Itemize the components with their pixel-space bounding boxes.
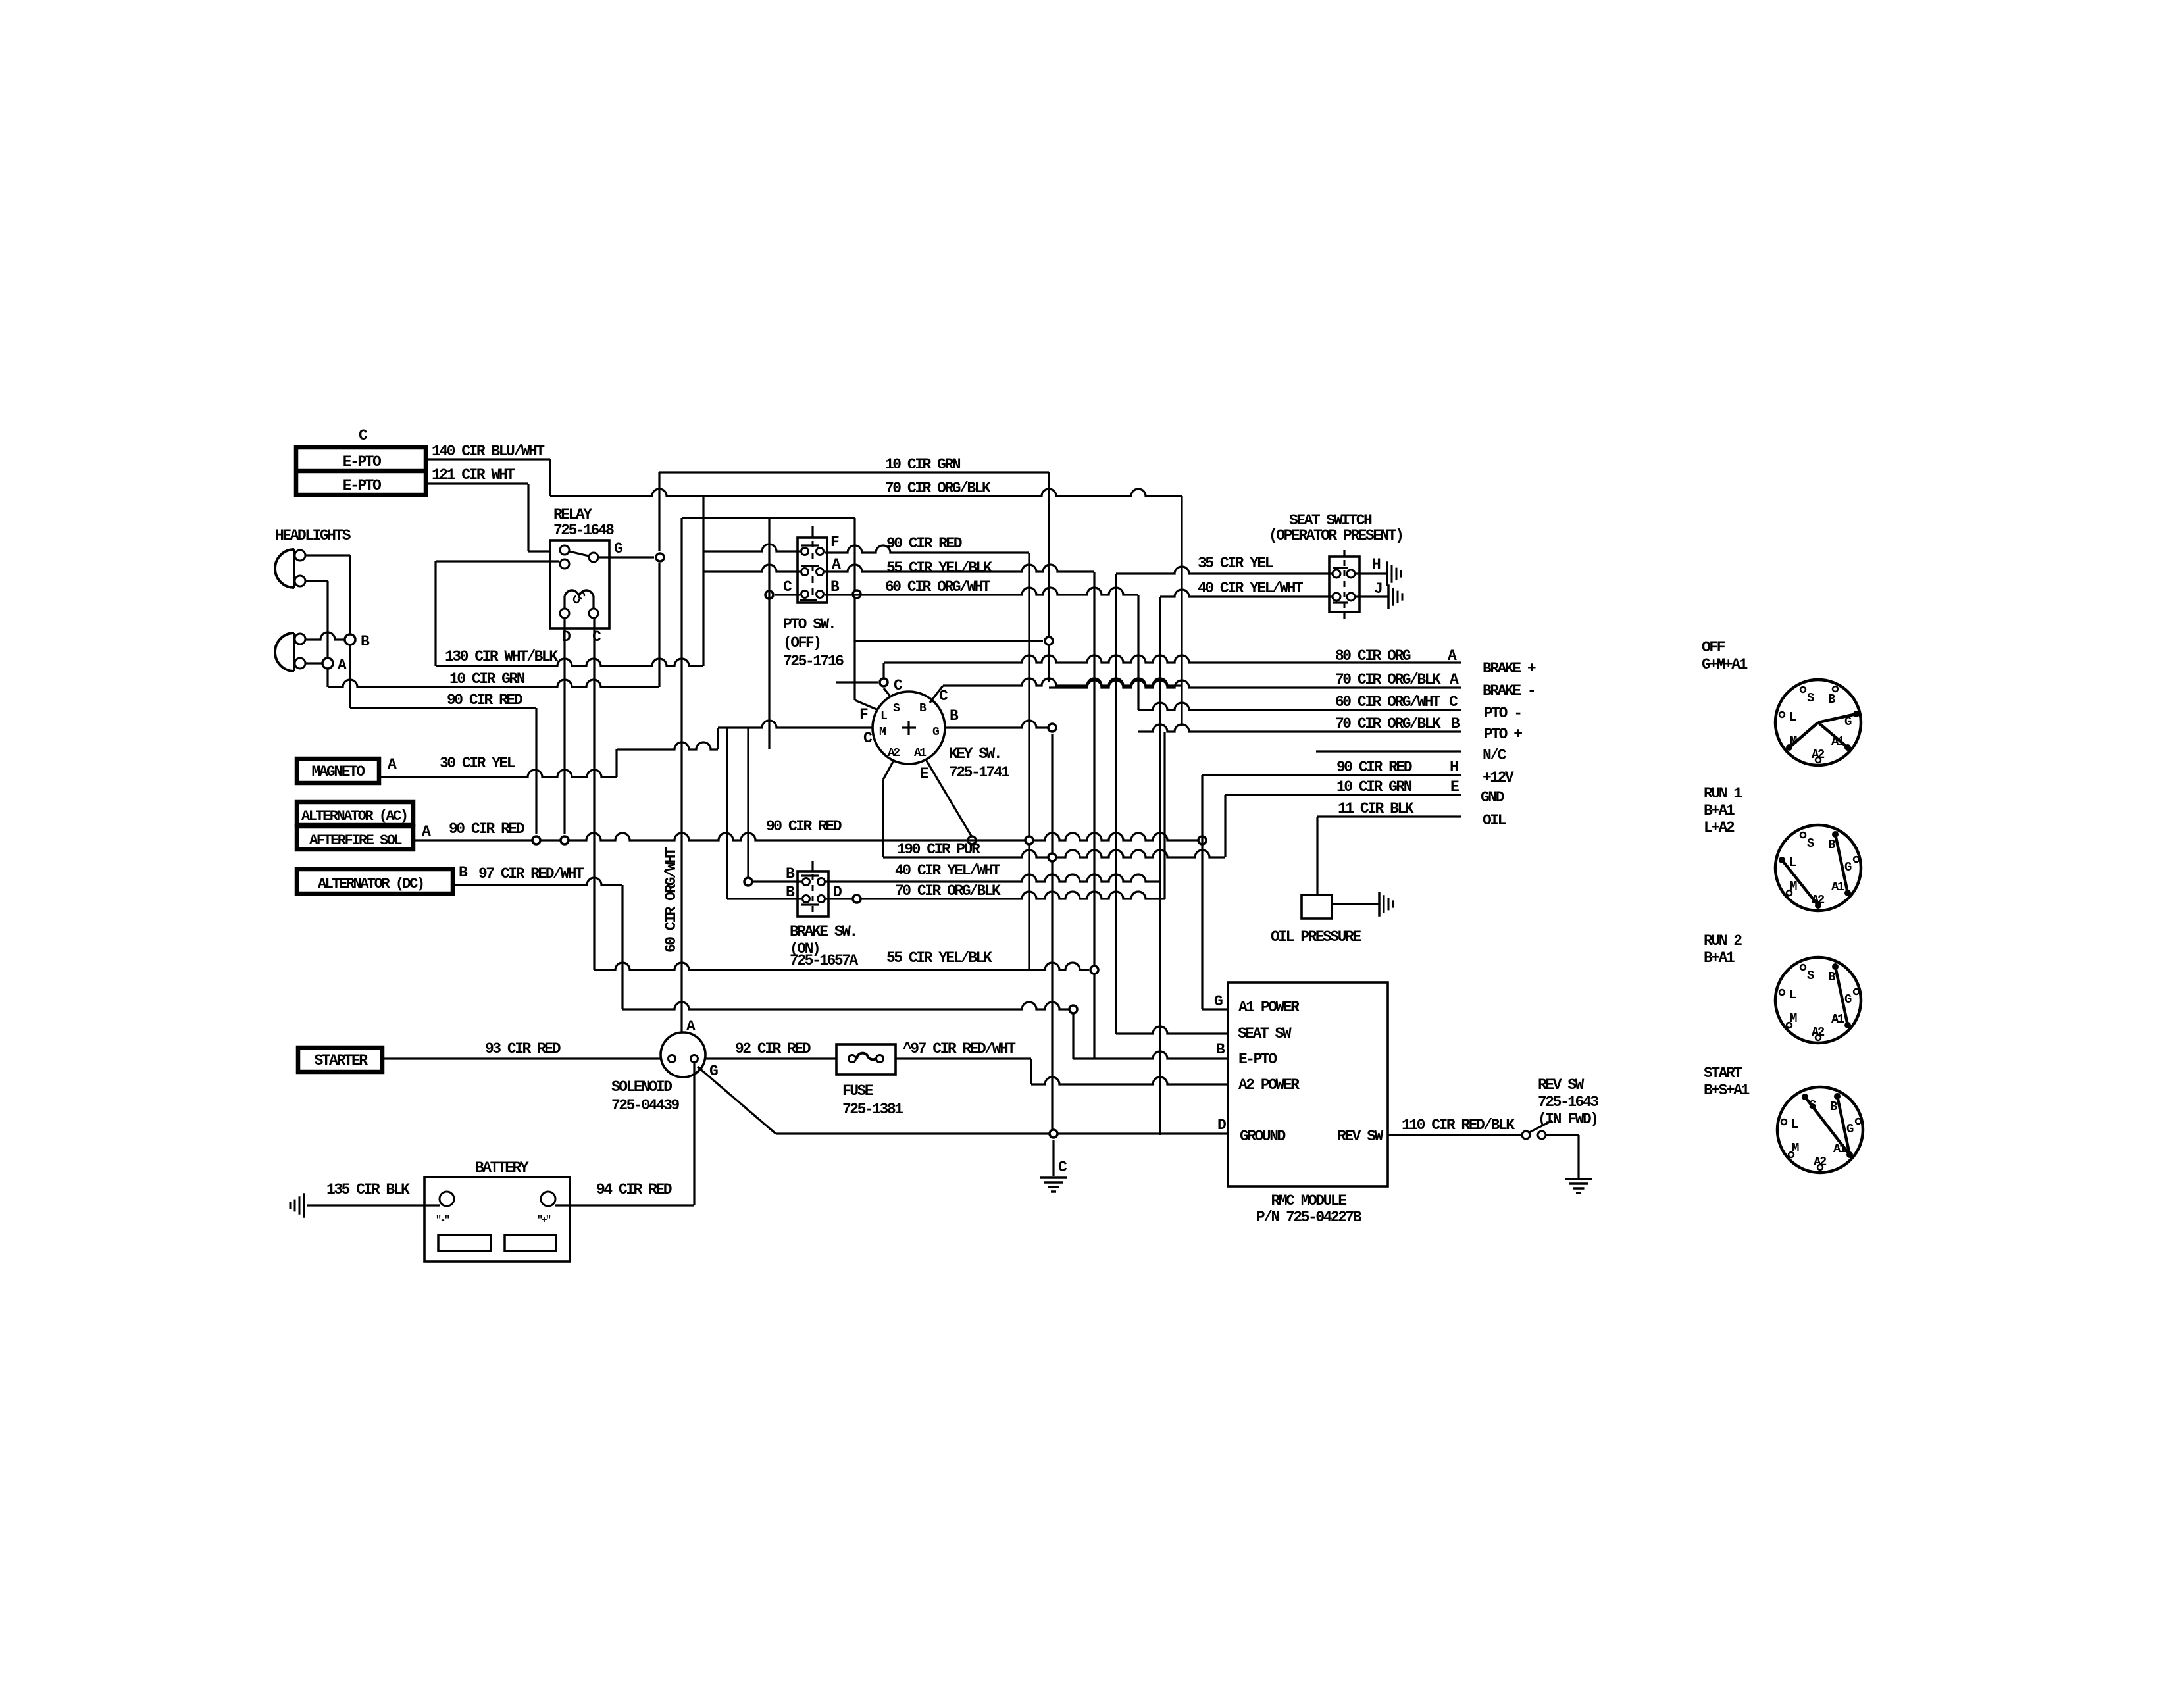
battery box	[424, 1177, 570, 1261]
wire oil pressure to ground	[1332, 903, 1379, 905]
relay coil pins	[560, 609, 598, 618]
wire 110 CIR RED/BLK	[1388, 1134, 1522, 1136]
svg-text:725-1648: 725-1648	[553, 522, 614, 539]
svg-text:A1: A1	[1833, 1142, 1846, 1156]
wire 40 CIR YEL/WHT label brake	[895, 862, 1001, 879]
svg-text:N/C: N/C	[1483, 747, 1507, 764]
RMC pin G	[1202, 775, 1228, 1010]
wire 30 CIR YEL	[379, 728, 718, 777]
wire 70 CIR ORG/BLK label top	[885, 480, 991, 497]
wire 90 CIR RED label PTOrow	[886, 535, 962, 552]
key terminal M	[879, 726, 886, 739]
svg-text:190 CIR PUR: 190 CIR PUR	[897, 841, 980, 858]
junction 190 PUR	[1048, 853, 1056, 861]
BRAKE SW. (ON) 725-1657A label	[790, 923, 858, 969]
svg-text:SEAT SW: SEAT SW	[1238, 1025, 1292, 1042]
svg-text:135 CIR BLK: 135 CIR BLK	[326, 1181, 410, 1198]
wire PTO C junction	[765, 518, 800, 749]
battery cell boxes	[438, 1235, 556, 1251]
wire 97 CIR RED/WHT fuse to RMC	[896, 1057, 1031, 1059]
svg-text:121 CIR WHT: 121 CIR WHT	[432, 467, 515, 484]
svg-text:OFF: OFF	[1702, 639, 1725, 656]
svg-text:REV SW: REV SW	[1538, 1076, 1585, 1094]
svg-text:PTO -: PTO -	[1484, 705, 1521, 722]
STARTER box	[298, 1048, 382, 1072]
HEADLIGHTS label	[275, 527, 351, 544]
brake switch plunger	[812, 874, 814, 913]
wire GROUND row	[776, 1132, 1228, 1134]
svg-text:60 CIR ORG/WHT: 60 CIR ORG/WHT	[885, 578, 991, 595]
svg-text:A1: A1	[1831, 734, 1844, 749]
PTO pins F row	[801, 545, 824, 555]
svg-text:BRAKE SW.: BRAKE SW.	[790, 923, 857, 940]
node A	[322, 657, 347, 674]
key position START label	[1704, 1065, 1750, 1099]
svg-text:A2: A2	[1812, 747, 1825, 762]
svg-text:55 CIR YEL/BLK: 55 CIR YEL/BLK	[886, 949, 992, 967]
battery minus mark	[436, 1215, 449, 1226]
PTO SW. (OFF) 725-1716 label	[783, 616, 844, 670]
key terminal L	[880, 710, 887, 723]
BRAKE + label	[1483, 660, 1536, 677]
svg-text:10 CIR GRN: 10 CIR GRN	[1336, 778, 1412, 796]
relay 725-1648 label	[553, 506, 614, 539]
wire solenoid to battery	[693, 1063, 695, 1205]
svg-text:60 CIR ORG/WHT: 60 CIR ORG/WHT	[1335, 694, 1441, 711]
junction 97 row	[1069, 1005, 1077, 1059]
svg-text:90 CIR RED: 90 CIR RED	[766, 818, 842, 835]
svg-text:F: F	[859, 706, 868, 723]
wire 135 CIR BLK	[307, 1204, 440, 1206]
junction 55 YEL/BLK	[1073, 966, 1228, 1059]
wire brake B2 left	[727, 728, 801, 899]
svg-text:725-1381: 725-1381	[842, 1101, 903, 1118]
solenoid pins	[669, 1055, 698, 1063]
svg-text:OIL PRESSURE: OIL PRESSURE	[1271, 928, 1361, 946]
svg-text:E: E	[920, 765, 928, 782]
fuse element	[849, 1053, 884, 1063]
wire 40 CIR YEL/WHT label seat	[1198, 580, 1304, 597]
wire 140 CIR BLU/WHT	[426, 459, 550, 496]
RMC E-PTO label	[1238, 1051, 1277, 1068]
svg-text:A2: A2	[888, 747, 900, 760]
key A2 stub	[883, 761, 894, 857]
svg-text:70 CIR ORG/BLK: 70 CIR ORG/BLK	[1335, 671, 1441, 688]
seat pins H row	[1333, 568, 1355, 578]
wire seat sw feed	[1116, 1026, 1228, 1034]
svg-text:93 CIR RED: 93 CIR RED	[485, 1040, 561, 1057]
svg-text:40 CIR YEL/WHT: 40 CIR YEL/WHT	[1198, 580, 1304, 597]
svg-text:L+A2: L+A2	[1704, 819, 1735, 836]
svg-text:G: G	[614, 540, 622, 557]
svg-text:D: D	[1217, 1117, 1226, 1134]
wire row to dot	[855, 637, 1053, 682]
key G wire	[945, 707, 1052, 728]
svg-text:11 CIR BLK: 11 CIR BLK	[1338, 800, 1414, 817]
wire 92 CIR RED	[705, 1057, 836, 1059]
PTO terminal B label	[830, 578, 840, 595]
svg-text:(OFF): (OFF)	[783, 634, 821, 651]
wire 35 CIR YEL label	[1198, 555, 1273, 572]
brake terminal D label	[833, 884, 842, 901]
svg-text:A2 POWER: A2 POWER	[1238, 1076, 1300, 1094]
wire 70 CIR ORG/BLK top	[550, 489, 1182, 726]
svg-text:725-1741: 725-1741	[949, 764, 1009, 781]
junction 90 RED c	[1025, 836, 1033, 844]
GND label	[1481, 789, 1504, 806]
svg-text:140 CIR BLU/WHT: 140 CIR BLU/WHT	[432, 443, 545, 460]
svg-text:A1: A1	[914, 747, 927, 760]
svg-text:RELAY: RELAY	[553, 506, 592, 523]
SEAT SWITCH label	[1269, 512, 1402, 544]
key position RUN 1 label	[1704, 785, 1742, 836]
wire 90 CIR RED H label	[1336, 759, 1458, 776]
wire 10 CIR GRN left	[328, 563, 659, 687]
svg-text:(OPERATOR PRESENT): (OPERATOR PRESENT)	[1269, 527, 1402, 544]
PTO - label	[1484, 705, 1521, 722]
svg-text:B+A1: B+A1	[1704, 802, 1735, 819]
wire headlight1 top to node B	[305, 555, 350, 634]
headlight lamp 2	[275, 633, 305, 671]
wire N/C	[1316, 747, 1507, 764]
svg-text:90 CIR RED: 90 CIR RED	[886, 535, 962, 552]
wire 97 row to RMC	[622, 1002, 1073, 1009]
wire 60 CIR ORG/WHT feeder	[682, 496, 855, 1032]
RMC A1 POWER label	[1238, 999, 1300, 1016]
svg-text:10 CIR GRN: 10 CIR GRN	[449, 670, 525, 688]
key G junction	[1048, 724, 1056, 1135]
svg-text:BRAKE -: BRAKE -	[1483, 682, 1535, 699]
wire 60 CIR ORG/WHT label PTOrow	[885, 578, 991, 595]
wire 130 CIR WHT/BLK	[436, 659, 703, 666]
svg-text:ALTERNATOR (AC): ALTERNATOR (AC)	[301, 808, 407, 824]
key switch center cross	[902, 721, 916, 735]
key position OFF diagram	[1775, 680, 1861, 765]
svg-text:H: H	[1450, 759, 1458, 776]
ground symbol oil pressure	[1379, 892, 1393, 917]
RMC GROUND label	[1240, 1128, 1286, 1145]
svg-text:D: D	[562, 628, 571, 645]
wire 11 CIR BLK	[1317, 817, 1461, 895]
junction 90 RED d	[1198, 836, 1206, 844]
key C stub top-left	[880, 677, 903, 696]
wire 121 CIR WHT	[426, 484, 550, 551]
RMC REV SW label	[1337, 1128, 1384, 1145]
ground symbol C	[1040, 1178, 1067, 1192]
node C label	[359, 427, 368, 444]
BATTERY label	[475, 1159, 529, 1176]
svg-text:STARTER: STARTER	[314, 1052, 368, 1069]
brake terminal B2 label	[786, 884, 795, 901]
relay G terminal label	[614, 540, 622, 557]
svg-text:KEY SW.: KEY SW.	[949, 746, 1001, 763]
wire 40 CIR YEL/WHT seat	[1160, 590, 1332, 1135]
svg-text:REV SW: REV SW	[1337, 1128, 1384, 1145]
svg-text:B+S+A1: B+S+A1	[1704, 1082, 1750, 1099]
brake switch box	[798, 861, 828, 917]
wire 35 CIR YEL right	[1116, 567, 1332, 1034]
key terminal A2 inner	[888, 747, 900, 760]
node B	[345, 633, 370, 650]
wire 110 CIR RED/BLK label	[1402, 1117, 1515, 1134]
PTO + label	[1484, 726, 1522, 743]
svg-text:E-PTO: E-PTO	[343, 477, 381, 494]
svg-text:SOLENOID: SOLENOID	[611, 1078, 672, 1096]
svg-text:55 CIR YEL/BLK: 55 CIR YEL/BLK	[886, 559, 992, 576]
svg-text:A2: A2	[1814, 1155, 1827, 1169]
wire A2 POWER feed	[1031, 1059, 1228, 1084]
wire 60 CIR ORG/WHT C label	[1335, 694, 1458, 711]
wire 97 CIR RED/WHT label	[478, 865, 584, 882]
key position RUN 2 diagram	[1775, 957, 1861, 1043]
svg-text:MAGNETO: MAGNETO	[311, 763, 365, 780]
REV SW 725-1643 label	[1538, 1076, 1598, 1128]
wire 90 CIR RED H	[1202, 774, 1461, 776]
svg-text:70 CIR ORG/BLK: 70 CIR ORG/BLK	[885, 480, 991, 497]
wire 70 CIR ORG/BLK B	[1138, 724, 1461, 732]
wire 55 CIR YEL/BLK	[594, 963, 1089, 970]
key C row left	[836, 681, 878, 683]
solenoid A label	[686, 1018, 696, 1035]
wire node B to 90 CIR RED	[349, 645, 351, 708]
brake terminal B1 label	[786, 865, 795, 882]
svg-text:130 CIR WHT/BLK: 130 CIR WHT/BLK	[445, 648, 558, 665]
wire 97 CIR RED/WHT	[453, 878, 622, 1009]
FUSE 725-1381 label	[842, 1082, 903, 1118]
wire PTO F feed	[703, 544, 800, 551]
svg-text:G+M+A1: G+M+A1	[1702, 656, 1748, 673]
KEY SW. 725-1741 label	[949, 746, 1009, 781]
AFTERFIRE SOL box	[297, 823, 431, 849]
svg-text:RUN 1: RUN 1	[1704, 785, 1742, 802]
wire 93 CIR RED	[382, 1057, 662, 1059]
PTO pins A row	[801, 566, 824, 576]
svg-text:H: H	[1372, 556, 1381, 573]
seat J wire	[1355, 580, 1402, 609]
wire 10 CIR GRN label left	[449, 670, 525, 688]
wire 90 CIR RED main	[413, 833, 1202, 840]
MAGNETO box	[297, 756, 397, 783]
RMC MODULE P/N label	[1256, 1192, 1362, 1226]
svg-text:AFTERFIRE SOL: AFTERFIRE SOL	[309, 832, 402, 849]
wire 70 CIR ORG/BLK A label	[1335, 671, 1459, 688]
relay G junction	[656, 553, 664, 561]
svg-text:^97 CIR RED/WHT: ^97 CIR RED/WHT	[903, 1040, 1016, 1057]
wire 55 CIR YEL/BLK label top	[886, 559, 992, 576]
junction ground C	[1050, 1130, 1067, 1176]
svg-text:725-1716: 725-1716	[783, 653, 844, 670]
seat switch box	[1329, 550, 1359, 619]
wire 30 CIR YEL label	[440, 755, 515, 772]
RMC pin D	[1217, 1117, 1226, 1134]
wire 55 CIR YEL/BLK label	[886, 949, 992, 967]
svg-text:110 CIR RED/BLK: 110 CIR RED/BLK	[1402, 1117, 1515, 1134]
wire 70 CIR ORG/BLK B label	[1335, 715, 1460, 732]
svg-text:70 CIR ORG/BLK: 70 CIR ORG/BLK	[1335, 715, 1441, 732]
wire node A to 10 CIR GRN	[326, 669, 328, 687]
svg-text:ALTERNATOR (DC): ALTERNATOR (DC)	[318, 876, 424, 892]
relay contact3 wire to 130	[436, 561, 559, 666]
wire PTO A feed	[703, 565, 800, 572]
svg-text:E-PTO: E-PTO	[343, 453, 381, 470]
wire 40 CIR YEL/WHT brake	[753, 874, 1160, 882]
junction 40 YEL/WHT	[744, 728, 752, 886]
wire 60 CIR ORG/WHT PTO B right	[825, 588, 1138, 710]
svg-text:90 CIR RED: 90 CIR RED	[447, 692, 522, 709]
svg-text:GROUND: GROUND	[1240, 1128, 1286, 1145]
wire 90 CIR RED key label	[766, 818, 842, 835]
key C stub top-right	[930, 686, 948, 705]
vertical 60 CIR ORG/WHT label	[663, 847, 680, 953]
seat H wire	[1355, 556, 1401, 586]
svg-text:725-04439: 725-04439	[611, 1097, 679, 1114]
svg-text:RMC MODULE: RMC MODULE	[1271, 1192, 1346, 1209]
headlight lamp 1	[275, 549, 305, 588]
+12V label	[1483, 769, 1514, 786]
PTO terminal C label	[783, 578, 792, 595]
key terminal B inner	[919, 702, 927, 715]
seat switch plunger	[1344, 560, 1346, 609]
relay coil	[565, 590, 594, 609]
wire 90 CIR RED PTO F right	[825, 545, 1029, 970]
wire headlight2 bottom	[305, 662, 322, 664]
svg-text:725-1657A: 725-1657A	[790, 952, 858, 969]
key terminal S	[893, 702, 900, 715]
BRAKE - label	[1483, 682, 1535, 699]
svg-text:94 CIR RED: 94 CIR RED	[596, 1181, 672, 1198]
brake pins bottom row	[801, 896, 825, 905]
svg-text:FUSE: FUSE	[842, 1082, 873, 1100]
svg-text:PTO +: PTO +	[1484, 726, 1522, 743]
PTO switch box	[798, 526, 827, 603]
wire 70 CIR ORG/BLK brake	[825, 732, 1165, 899]
solenoid circle	[661, 1032, 705, 1077]
PTO terminal A label	[832, 556, 841, 573]
svg-text:RUN 2: RUN 2	[1704, 932, 1742, 949]
key position RUN 2 label	[1704, 932, 1742, 967]
svg-text:B+A1: B+A1	[1704, 949, 1735, 967]
svg-text:PTO SW.: PTO SW.	[783, 616, 835, 633]
key switch circle	[873, 692, 945, 764]
battery terminals	[440, 1192, 555, 1206]
wire solenoid G diagonal	[698, 1067, 776, 1134]
wire headlight2 top	[305, 632, 344, 640]
wire 10 CIR GRN top	[659, 472, 1049, 681]
svg-text:90 CIR RED: 90 CIR RED	[449, 821, 524, 838]
RMC module box	[1228, 982, 1388, 1186]
wire 60 CIR ORG/WHT C	[1138, 703, 1461, 710]
svg-text:BATTERY: BATTERY	[475, 1159, 529, 1176]
svg-text:E: E	[1450, 778, 1459, 796]
svg-text:GND: GND	[1481, 789, 1504, 806]
key position START diagram	[1777, 1087, 1863, 1173]
wire 140 CIR BLU/WHT label	[432, 443, 545, 460]
key terminal G	[932, 726, 939, 739]
ground symbol rev switch	[1565, 1179, 1592, 1193]
key E diagonal	[920, 761, 972, 837]
relay G wire	[599, 556, 654, 558]
wire 80 CIR ORG	[884, 655, 1461, 678]
wire 90 CIR RED label mid	[447, 692, 522, 709]
ALTERNATOR (DC) box	[297, 864, 468, 894]
junction 90 RED b	[561, 836, 569, 844]
svg-text:10 CIR GRN: 10 CIR GRN	[885, 456, 961, 473]
junction 90 RED a	[532, 836, 540, 844]
PTO pins B row	[800, 591, 824, 601]
svg-text:+12V: +12V	[1483, 769, 1514, 786]
OIL label	[1483, 812, 1506, 829]
oil pressure switch box	[1302, 895, 1332, 919]
svg-text:90 CIR RED: 90 CIR RED	[1336, 759, 1412, 776]
svg-text:"+": "+"	[537, 1215, 551, 1226]
brake pins top row	[801, 876, 825, 886]
svg-text:725-1643: 725-1643	[1538, 1094, 1598, 1111]
relay 725-1648 box	[550, 540, 609, 628]
svg-text:F: F	[830, 534, 839, 551]
junction 70 ORG/BLK D	[853, 895, 861, 903]
fuse box	[836, 1044, 896, 1075]
wire 90 CIR RED headlights	[350, 708, 536, 834]
PTO B open junction	[853, 590, 861, 598]
svg-text:J: J	[1374, 580, 1382, 597]
PTO switch plunger	[812, 541, 814, 600]
svg-text:A1 POWER: A1 POWER	[1238, 999, 1300, 1016]
key F stub	[855, 640, 876, 723]
wire 80 CIR ORG label	[1335, 647, 1457, 665]
rev switch	[1522, 1121, 1552, 1139]
E-PTO connector block	[296, 447, 426, 495]
wire 70 CIR ORG/BLK label brake	[895, 882, 1001, 899]
svg-text:30 CIR YEL: 30 CIR YEL	[440, 755, 515, 772]
key M wire	[718, 721, 873, 747]
wire 90 CIR RED label left	[449, 821, 524, 838]
wire 10 CIR GRN label top	[885, 456, 961, 473]
svg-text:A2: A2	[1812, 1025, 1825, 1040]
svg-text:40 CIR YEL/WHT: 40 CIR YEL/WHT	[895, 862, 1001, 879]
svg-text:92 CIR RED: 92 CIR RED	[735, 1040, 811, 1057]
wire 94 CIR RED label	[596, 1181, 672, 1198]
ground symbol battery	[290, 1193, 304, 1218]
svg-text:HEADLIGHTS: HEADLIGHTS	[275, 527, 351, 544]
svg-text:"-": "-"	[436, 1215, 449, 1226]
svg-text:G: G	[1214, 993, 1223, 1010]
svg-text:35 CIR YEL: 35 CIR YEL	[1198, 555, 1273, 572]
relay coil D vertical	[563, 619, 565, 834]
wire headlight1 bottom to node A	[305, 581, 328, 657]
svg-text:A1: A1	[1831, 880, 1844, 894]
wire 55 CIR YEL/BLK upper	[825, 565, 1094, 965]
ALTERNATOR (AC) box	[297, 802, 413, 825]
wire 135 CIR BLK label	[326, 1181, 410, 1198]
wire 11 CIR BLK label	[1338, 800, 1414, 817]
wire 10 CIR GRN E	[1225, 795, 1461, 857]
wire 93 CIR RED label	[485, 1040, 561, 1057]
RMC pin B	[1216, 1041, 1225, 1058]
svg-text:BRAKE +: BRAKE +	[1483, 660, 1536, 677]
wire 94 CIR RED	[555, 1204, 694, 1206]
wire 121 CIR WHT label	[432, 467, 515, 484]
wire rev switch to ground	[1546, 1135, 1579, 1178]
svg-text:60 CIR ORG/WHT: 60 CIR ORG/WHT	[663, 847, 680, 953]
seat pins J row	[1333, 593, 1355, 603]
key position RUN 1 diagram	[1775, 825, 1861, 911]
SOLENOID 725-04439 label	[611, 1078, 679, 1114]
relay coil C vertical	[593, 619, 595, 970]
relay terminal D label	[562, 628, 571, 645]
svg-text:(IN FWD): (IN FWD)	[1538, 1111, 1597, 1128]
OIL PRESSURE label	[1271, 928, 1361, 946]
key E junction	[968, 836, 976, 844]
